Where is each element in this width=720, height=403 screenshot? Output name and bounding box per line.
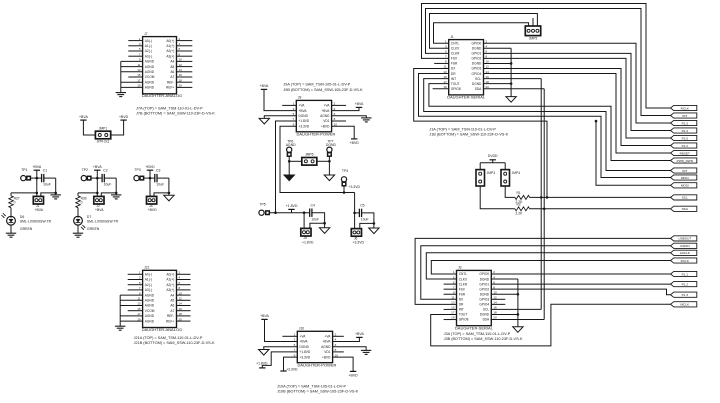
wire USDIN net xyxy=(421,246,671,299)
connector J10 DAUGHTER-POWER (bottom) xyxy=(294,327,339,368)
svg-text:CLKR: CLKR xyxy=(459,282,468,286)
svg-text:R2: R2 xyxy=(517,202,521,206)
junction xyxy=(303,211,306,214)
power flag +BVA xyxy=(32,165,41,170)
wire xyxy=(312,213,325,228)
svg-text:GPIO1: GPIO1 xyxy=(479,282,489,286)
svg-text:+BVA: +BVA xyxy=(35,208,44,212)
svg-text:REF+: REF+ xyxy=(166,319,174,323)
wire GPIO0 to flag xyxy=(484,43,671,123)
wire xyxy=(121,71,143,73)
power flag +BVA xyxy=(355,332,364,337)
test point TP6 xyxy=(286,139,296,156)
wire xyxy=(177,40,193,42)
svg-text:DGND: DGND xyxy=(480,292,490,296)
net flag SDA xyxy=(671,206,697,211)
wire xyxy=(530,196,671,198)
svg-text:JMP6: JMP6 xyxy=(305,153,314,157)
svg-text:AGND: AGND xyxy=(321,345,331,349)
wire xyxy=(505,186,515,197)
jumper J4 xyxy=(147,196,158,212)
wire xyxy=(269,212,309,214)
svg-text:AGND: AGND xyxy=(286,143,296,147)
jumper J6 xyxy=(351,229,364,245)
resistor R27 xyxy=(9,193,20,208)
wire GPIO2 to flag xyxy=(484,58,671,138)
svg-text:AGND: AGND xyxy=(145,314,155,318)
junction xyxy=(546,196,549,199)
wire xyxy=(91,177,97,179)
jumper JMP4 xyxy=(501,170,520,186)
svg-text:A3(-): A3(-) xyxy=(145,288,152,292)
svg-text:2.2K: 2.2K xyxy=(516,212,524,216)
svg-text:DR: DR xyxy=(451,72,456,76)
ground xyxy=(513,327,523,333)
wire +3.3VD down xyxy=(280,126,355,192)
svg-text:INT: INT xyxy=(459,308,464,312)
svg-text:A1(+): A1(+) xyxy=(166,44,174,48)
svg-text:A2(+): A2(+) xyxy=(166,49,174,53)
svg-text:+1.8VD: +1.8VD xyxy=(299,119,310,123)
wire xyxy=(177,310,191,312)
net flag P2.4 xyxy=(671,128,697,133)
svg-text:CNTL: CNTL xyxy=(459,272,468,276)
net flag INT xyxy=(671,113,697,118)
svg-text:+BVD: +BVD xyxy=(321,124,330,128)
connector J7 DAUGHTER-ANALOG (top) xyxy=(137,32,182,98)
power flag +BVD xyxy=(145,165,155,170)
svg-text:AGND: AGND xyxy=(145,60,155,64)
svg-text:DGND: DGND xyxy=(480,277,490,281)
svg-text:SML-LX0603GW-TR: SML-LX0603GW-TR xyxy=(20,219,52,223)
resistor R1 xyxy=(515,191,530,204)
svg-text:P2.5: P2.5 xyxy=(682,136,689,140)
svg-text:A4: A4 xyxy=(170,60,174,64)
ground xyxy=(324,175,334,181)
wire xyxy=(11,192,37,194)
wire xyxy=(120,305,142,307)
wire xyxy=(177,50,193,52)
net flag RCLK xyxy=(671,258,697,263)
wire xyxy=(177,320,191,322)
wire xyxy=(177,45,193,47)
svg-text:J10: J10 xyxy=(299,327,304,331)
net flag MCLK xyxy=(671,302,697,307)
svg-text:JMP3: JMP3 xyxy=(487,171,496,175)
net flag MOSI xyxy=(671,183,697,188)
svg-text:J3A (TOP) = SAM_TSM-110-01-L-D: J3A (TOP) = SAM_TSM-110-01-L-DV-P xyxy=(444,332,511,336)
svg-text:SCL: SCL xyxy=(475,77,481,81)
svg-text:DGND: DGND xyxy=(472,62,482,66)
wire AGND bus xyxy=(119,295,121,326)
wire xyxy=(128,45,142,47)
wire xyxy=(177,284,191,286)
svg-text:10uF: 10uF xyxy=(43,183,51,187)
wire GPIO3 to flag xyxy=(484,69,671,146)
wire xyxy=(128,55,142,57)
wire xyxy=(362,213,374,228)
svg-text:A2(-): A2(-) xyxy=(145,49,152,53)
wire xyxy=(128,310,143,312)
net flag P1.1 xyxy=(671,271,697,276)
svg-text:P2.3: P2.3 xyxy=(682,121,689,125)
wire SDA bus xyxy=(484,89,545,320)
wire jumper pin2 hook xyxy=(101,193,116,197)
svg-text:A2(-): A2(-) xyxy=(145,283,152,287)
svg-text:DGND: DGND xyxy=(300,345,310,349)
wire xyxy=(96,170,98,196)
svg-text:A1(-): A1(-) xyxy=(145,278,152,282)
wire DGND bus J3 xyxy=(491,279,518,327)
svg-text:J9B (BOTTOM) = SAM_SSW-105-23F: J9B (BOTTOM) = SAM_SSW-105-23F-D-VS-K xyxy=(283,88,363,92)
svg-text:PWR_DWN: PWR_DWN xyxy=(677,159,693,163)
svg-text:DAUGHTER-ANALOG: DAUGHTER-ANALOG xyxy=(142,93,182,98)
wire xyxy=(77,208,79,217)
junction xyxy=(353,212,356,215)
svg-text:USDIN: USDIN xyxy=(680,244,690,248)
svg-text:FSX: FSX xyxy=(459,287,466,291)
wire xyxy=(177,279,191,281)
test point TP2 xyxy=(81,168,91,181)
svg-text:AGND: AGND xyxy=(145,299,155,303)
wire jumper pin2 hook xyxy=(154,193,169,197)
wire xyxy=(168,178,170,195)
svg-text:A2(+): A2(+) xyxy=(166,283,174,287)
svg-text:TOUT: TOUT xyxy=(451,82,460,86)
wire jumper pin2 hook xyxy=(41,193,56,197)
ground xyxy=(164,195,174,201)
svg-text:C2: C2 xyxy=(103,168,107,172)
svg-text:INT: INT xyxy=(682,169,687,173)
svg-text:+BVA: +BVA xyxy=(260,84,269,88)
ground xyxy=(73,233,83,237)
wire +1.8VD down xyxy=(276,121,297,213)
junction xyxy=(373,222,376,225)
svg-text:A6: A6 xyxy=(170,70,174,74)
svg-text:0: 0 xyxy=(81,200,83,204)
svg-text:REF-: REF- xyxy=(167,314,174,318)
svg-text:GPIO2: GPIO2 xyxy=(479,287,489,291)
jumper JMP3 xyxy=(476,170,495,186)
wire pin2 stub xyxy=(333,335,344,337)
net flag PWR_DWN xyxy=(671,158,697,163)
ground xyxy=(51,195,61,199)
svg-text:+1.8VD: +1.8VD xyxy=(300,350,311,354)
note J9 part numbers xyxy=(283,83,363,92)
junction xyxy=(274,211,277,214)
wire JMP5 pin2 stub xyxy=(532,18,534,26)
svg-text:GPIO8: GPIO8 xyxy=(459,318,469,322)
net flag P1.2 xyxy=(671,143,697,148)
svg-text:AGND: AGND xyxy=(145,70,155,74)
jumper JMP6 xyxy=(302,153,317,165)
svg-text:A5: A5 xyxy=(170,299,174,303)
svg-text:REF-: REF- xyxy=(167,80,174,84)
wire xyxy=(177,66,193,68)
svg-text:GREEN: GREEN xyxy=(87,227,100,231)
svg-text:+BVA: +BVA xyxy=(32,165,41,169)
svg-text:GPIO8: GPIO8 xyxy=(451,87,461,91)
svg-text:GPIO4: GPIO4 xyxy=(479,303,489,307)
wire xyxy=(120,294,142,296)
svg-text:AGND: AGND xyxy=(145,319,155,323)
svg-text:TP3: TP3 xyxy=(134,168,140,172)
power flag +BVD xyxy=(350,139,360,145)
ground xyxy=(111,195,121,199)
svg-text:SCL: SCL xyxy=(483,308,489,312)
test point TP1 xyxy=(21,168,31,181)
wire GPIO8 stub xyxy=(433,88,449,90)
svg-text:A0(-): A0(-) xyxy=(145,273,152,277)
junction xyxy=(36,192,39,195)
wire GPIO2 to P1.3 xyxy=(491,289,670,295)
wire xyxy=(78,192,97,194)
svg-text:JPR-2x1: JPR-2x1 xyxy=(97,140,110,144)
svg-text:SDA: SDA xyxy=(682,207,689,211)
jumper J5 xyxy=(301,228,314,244)
junction xyxy=(343,191,346,194)
junction xyxy=(543,208,546,211)
svg-text:FSX: FSX xyxy=(451,57,458,61)
net flag RCLK xyxy=(671,105,697,110)
svg-text:+BVA: +BVA xyxy=(355,102,364,106)
svg-text:AGND: AGND xyxy=(145,65,155,69)
LED D7 xyxy=(74,215,119,231)
svg-text:+BVD: +BVD xyxy=(145,165,155,169)
junction xyxy=(149,177,152,180)
junction xyxy=(510,62,513,65)
wire xyxy=(120,315,142,317)
svg-text:LRCLK: LRCLK xyxy=(680,251,691,255)
svg-text:J1B (BOTTOM) = SAM_SSW-110-23F: J1B (BOTTOM) = SAM_SSW-110-23F-D-VS-K xyxy=(429,133,508,137)
svg-text:AGND: AGND xyxy=(145,80,155,84)
power flag +BVA xyxy=(355,102,364,107)
svg-text:C4: C4 xyxy=(311,204,315,208)
svg-text:AGND: AGND xyxy=(320,114,330,118)
wire xyxy=(265,319,298,341)
wire TOUT to MCLK xyxy=(431,304,671,346)
wire GPIO0 to P1.1 xyxy=(491,273,670,275)
svg-text:RCLK: RCLK xyxy=(681,259,690,263)
svg-text:A7: A7 xyxy=(170,75,174,79)
svg-text:+BVD: +BVD xyxy=(119,115,129,119)
wire pin2 stub xyxy=(332,104,347,106)
svg-text:10uF: 10uF xyxy=(104,183,112,187)
svg-text:CLKX: CLKX xyxy=(459,277,468,281)
net flag P2.3 xyxy=(671,120,697,125)
svg-text:+BVD: +BVD xyxy=(322,355,331,359)
wire LRCLK net xyxy=(426,253,670,279)
net flag USDIN xyxy=(671,243,697,248)
svg-text:VD1: VD1 xyxy=(324,350,330,354)
wire xyxy=(128,40,142,42)
svg-text:+BVD: +BVD xyxy=(350,141,360,145)
svg-text:+1.8VD: +1.8VD xyxy=(302,240,314,244)
power flag +BVA xyxy=(260,84,269,89)
wire USBOUT net xyxy=(415,238,670,304)
junction xyxy=(328,160,331,163)
resistor R2 xyxy=(515,202,530,215)
svg-text:DAUGHTER-POWER: DAUGHTER-POWER xyxy=(297,131,336,136)
svg-text:J7A (TOP) = SAM_TSM-110-01-L-D: J7A (TOP) = SAM_TSM-110-01-L-DV-P xyxy=(136,106,203,110)
wire xyxy=(354,213,356,229)
svg-text:+BVA: +BVA xyxy=(95,208,104,212)
wire stubs J3 right xyxy=(491,299,505,304)
jumper JMP5 xyxy=(525,26,540,40)
ground xyxy=(116,93,126,97)
wire DX route xyxy=(414,69,547,198)
svg-text:C5: C5 xyxy=(360,204,364,208)
wire GPIO1 to P1.2 xyxy=(491,283,670,285)
svg-text:TP5: TP5 xyxy=(259,202,265,206)
wire +3.3VD xyxy=(284,357,298,371)
wire xyxy=(177,315,191,317)
svg-text:P1.3: P1.3 xyxy=(682,293,689,297)
wire xyxy=(177,60,193,62)
svg-text:J21: J21 xyxy=(144,266,149,270)
junction xyxy=(36,177,39,180)
test point TP4 xyxy=(341,169,348,186)
junction xyxy=(517,293,520,296)
svg-text:+BVA: +BVA xyxy=(355,332,364,336)
svg-text:J3: J3 xyxy=(458,266,462,270)
wire xyxy=(121,60,143,62)
wire xyxy=(121,86,143,88)
svg-text:J10A (TOP) = SAM_TSM-105-01-L-: J10A (TOP) = SAM_TSM-105-01-L-DV-P xyxy=(277,385,347,389)
junction xyxy=(595,120,598,123)
svg-text:SDA: SDA xyxy=(475,87,482,91)
svg-text:GPIO3: GPIO3 xyxy=(479,298,489,302)
wire CNTL loop to JMP5 xyxy=(434,23,529,43)
capacitor C4 xyxy=(310,204,319,222)
net flag P1.2 xyxy=(671,282,697,287)
wire xyxy=(328,156,330,175)
wire DGND xyxy=(264,116,296,119)
jumper JMP1 xyxy=(95,127,110,144)
wire xyxy=(177,76,193,78)
wire xyxy=(355,212,360,214)
wire xyxy=(128,50,142,52)
note J21 part numbers xyxy=(134,336,215,345)
svg-text:A7: A7 xyxy=(170,309,174,313)
wire pin10 +BVD xyxy=(332,126,355,139)
wire xyxy=(288,156,290,175)
wire FSX loop to flag xyxy=(422,4,671,109)
capacitor C2 xyxy=(97,168,116,186)
wire INT route xyxy=(424,79,671,171)
wire xyxy=(177,289,191,291)
wire xyxy=(83,120,95,135)
svg-text:10uF: 10uF xyxy=(311,217,319,221)
net flag P2.5 xyxy=(671,135,697,140)
svg-text:JMP1: JMP1 xyxy=(99,127,108,131)
svg-text:GREEN: GREEN xyxy=(20,227,33,231)
svg-text:SDA: SDA xyxy=(483,318,490,322)
wire xyxy=(30,177,36,179)
svg-text:+3.3VD: +3.3VD xyxy=(300,355,311,359)
svg-text:FSR: FSR xyxy=(451,62,458,66)
svg-text:J21A (TOP) = SAM_TSM-110-01-L-: J21A (TOP) = SAM_TSM-110-01-L-DV-P xyxy=(134,336,203,340)
wire pin10 +BVD xyxy=(333,357,354,371)
junction xyxy=(96,192,99,195)
wire xyxy=(177,86,193,88)
svg-text:REF+: REF+ xyxy=(166,86,174,90)
svg-text:GPIO0: GPIO0 xyxy=(472,41,482,45)
svg-text:DGND: DGND xyxy=(472,82,482,86)
junction xyxy=(510,82,513,85)
svg-text:A5: A5 xyxy=(170,65,174,69)
wire +1.8VD xyxy=(262,352,297,368)
wire DGND xyxy=(264,347,298,350)
svg-text:+1.8VD: +1.8VD xyxy=(256,361,268,365)
wire xyxy=(128,284,143,286)
svg-text:J9: J9 xyxy=(298,96,302,100)
svg-text:A4: A4 xyxy=(170,293,174,297)
svg-text:DR: DR xyxy=(459,303,464,307)
svg-text:P1.2: P1.2 xyxy=(682,144,689,148)
svg-text:SML-LX0603GW-TR: SML-LX0603GW-TR xyxy=(87,219,119,223)
wire xyxy=(264,89,296,110)
svg-text:+BVA: +BVA xyxy=(79,115,88,119)
svg-text:TP1: TP1 xyxy=(21,168,27,172)
wire pin1 stub xyxy=(282,104,296,106)
svg-text:A0(-): A0(-) xyxy=(145,39,152,43)
svg-text:+BVA: +BVA xyxy=(299,109,308,113)
net flag RESET xyxy=(671,150,697,155)
svg-text:J7B (BOTTOM) = SAM_SSW-110-23F: J7B (BOTTOM) = SAM_SSW-110-23F-D-VS-K xyxy=(136,111,215,115)
svg-text:DAUGHTER-SERIAL: DAUGHTER-SERIAL xyxy=(447,95,486,100)
svg-text:MISO: MISO xyxy=(681,176,690,180)
svg-text:DVDD: DVDD xyxy=(488,154,498,158)
svg-text:GPIO1: GPIO1 xyxy=(472,52,482,56)
note J7 part numbers xyxy=(136,106,215,115)
ground xyxy=(115,326,125,330)
wire xyxy=(177,55,193,57)
wire xyxy=(177,71,193,73)
junction xyxy=(323,222,326,225)
note J3 part numbers xyxy=(444,332,523,341)
wire stubs J3 left xyxy=(444,284,457,319)
svg-text:AGND: AGND xyxy=(145,86,155,90)
wire FSR stub xyxy=(434,62,449,64)
svg-text:+BVA: +BVA xyxy=(321,109,330,113)
net flag SCL xyxy=(671,195,697,200)
wire xyxy=(480,186,515,209)
svg-text:P2.4: P2.4 xyxy=(682,129,689,133)
power flag +BVA xyxy=(260,314,269,319)
svg-text:INT: INT xyxy=(451,77,456,81)
svg-text:DAUGHTER-POWER: DAUGHTER-POWER xyxy=(298,362,337,367)
svg-text:GPIO3: GPIO3 xyxy=(472,67,482,71)
svg-text:+VA: +VA xyxy=(300,335,307,339)
wire GPIO1 to flag xyxy=(484,53,671,130)
svg-text:C3: C3 xyxy=(156,168,160,172)
svg-text:J9A (TOP) = SAM_TSM-105-01-L-D: J9A (TOP) = SAM_TSM-105-01-L-DV-P xyxy=(283,83,350,87)
wire xyxy=(343,186,345,193)
junction xyxy=(288,160,291,163)
svg-text:CNTL: CNTL xyxy=(451,41,460,45)
svg-text:R1: R1 xyxy=(517,191,521,195)
power flag +BVA xyxy=(79,115,88,120)
svg-text:P1.1: P1.1 xyxy=(682,272,689,276)
ground xyxy=(259,350,269,356)
wire pin8 stub xyxy=(332,120,347,122)
svg-text:VCOM: VCOM xyxy=(145,75,155,79)
svg-text:J10B (BOTTOM) = SAM_SSW-105-23: J10B (BOTTOM) = SAM_SSW-105-23F-D-VS-K xyxy=(277,390,359,394)
wire xyxy=(177,305,191,307)
label +3.3VD xyxy=(349,185,361,189)
net flag INT xyxy=(671,168,697,173)
